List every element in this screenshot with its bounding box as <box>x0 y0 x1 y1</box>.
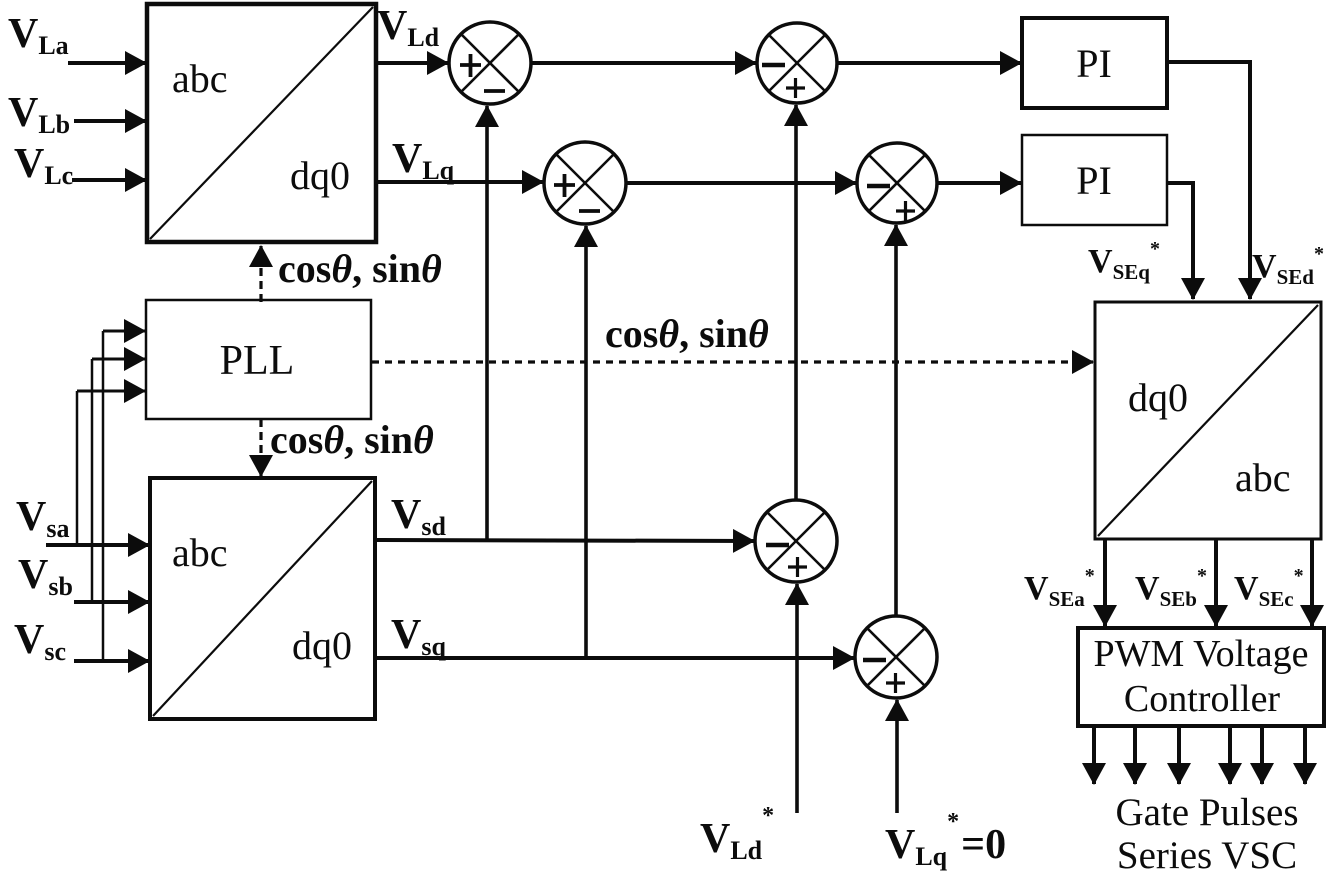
svg-text:Vsc: Vsc <box>14 617 66 666</box>
svg-text:Vsq: Vsq <box>391 612 446 661</box>
svg-text:cosθ, sinθ: cosθ, sinθ <box>605 311 769 356</box>
svg-text:VLd: VLd <box>377 3 440 52</box>
svg-text:Vsd: Vsd <box>391 492 446 541</box>
svg-text:Gate Pulses: Gate Pulses <box>1115 791 1298 834</box>
svg-text:VSEq*: VSEq* <box>1088 238 1160 284</box>
svg-text:PLL: PLL <box>220 338 295 384</box>
svg-text:VLq*=0: VLq*=0 <box>885 809 1006 871</box>
svg-text:PWM Voltage: PWM Voltage <box>1094 633 1309 675</box>
svg-text:cosθ, sinθ: cosθ, sinθ <box>278 246 442 291</box>
svg-text:abc: abc <box>172 530 228 575</box>
svg-text:Series VSC: Series VSC <box>1117 834 1297 877</box>
svg-text:VSEa*: VSEa* <box>1024 565 1095 611</box>
svg-text:VLa: VLa <box>8 11 69 60</box>
svg-text:abc: abc <box>172 56 228 101</box>
svg-text:Vsb: Vsb <box>18 552 73 601</box>
svg-text:VSEb*: VSEb* <box>1135 565 1207 611</box>
svg-text:dq0: dq0 <box>1128 375 1188 420</box>
svg-text:cosθ, sinθ: cosθ, sinθ <box>270 417 434 462</box>
svg-text:VLq: VLq <box>392 136 455 185</box>
svg-text:VLd*: VLd* <box>700 803 774 865</box>
svg-text:Vsa: Vsa <box>16 494 69 543</box>
svg-text:VSEc*: VSEc* <box>1234 565 1304 611</box>
svg-text:Controller: Controller <box>1124 678 1281 720</box>
svg-text:VLb: VLb <box>8 90 70 139</box>
svg-text:VLc: VLc <box>14 141 73 190</box>
svg-text:VSEd*: VSEd* <box>1252 243 1324 289</box>
svg-text:PI: PI <box>1076 158 1112 203</box>
svg-text:PI: PI <box>1076 41 1112 86</box>
svg-text:abc: abc <box>1235 455 1291 500</box>
svg-text:dq0: dq0 <box>290 153 350 198</box>
svg-text:dq0: dq0 <box>292 623 352 668</box>
